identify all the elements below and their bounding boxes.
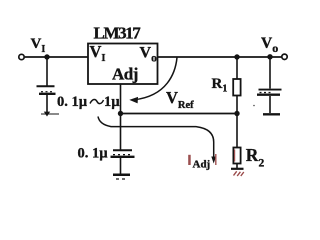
wire C1 to ground [46,95,48,113]
wire R1 top lead [236,57,238,79]
output terminal VO [282,54,287,59]
ground (R2) [231,168,244,170]
capacitor C1 plate top [37,85,55,87]
node output cap top [267,54,272,59]
capacitor C2 plate top [259,89,282,91]
svg-text:Adj: Adj [193,159,211,171]
node R1/R2 junction [234,111,239,116]
wire R1 bottom lead [236,96,238,114]
wire C3 to ground [120,158,122,174]
wire adj pin drop [120,84,122,114]
wire bottom cap drop [120,114,122,150]
ground (output cap) [263,113,280,115]
svg-text:0. 1µ: 0. 1µ [78,146,109,162]
capacitor C1 plate bottom (hatched) [39,93,56,95]
scan speck [253,105,255,107]
label IAdj [188,155,191,165]
wire input cap drop [46,57,48,86]
wire output cap drop [269,57,271,89]
wire R2 top lead [236,114,238,148]
VRef curved arrow [134,58,177,100]
wire C2 to ground [269,96,271,113]
resistor R1 body [233,79,240,96]
svg-text:Adj: Adj [112,65,138,84]
node input junction [44,54,49,59]
node R1 top [234,54,239,59]
node adj junction [118,111,123,116]
wire adj rail [121,113,238,115]
ground (input cap) [41,113,59,115]
capacitor C3 plate bottom (hatched) [111,156,135,158]
ground (bottom cap) [113,174,130,177]
resistor R2 body [233,148,240,164]
input terminal VI [19,54,24,59]
wire box output to terminal [158,56,282,58]
wire R2 bottom lead [236,164,238,169]
op-amp style regulator U1 LM317 box [88,44,158,85]
wire input to box [25,56,88,58]
svg-text:LM317: LM317 [94,24,142,43]
capacitor C2 plate bottom (hatched) [257,94,280,96]
IAdj flow arrow (curved) [98,117,214,158]
capacitor C3 plate top [113,149,132,151]
